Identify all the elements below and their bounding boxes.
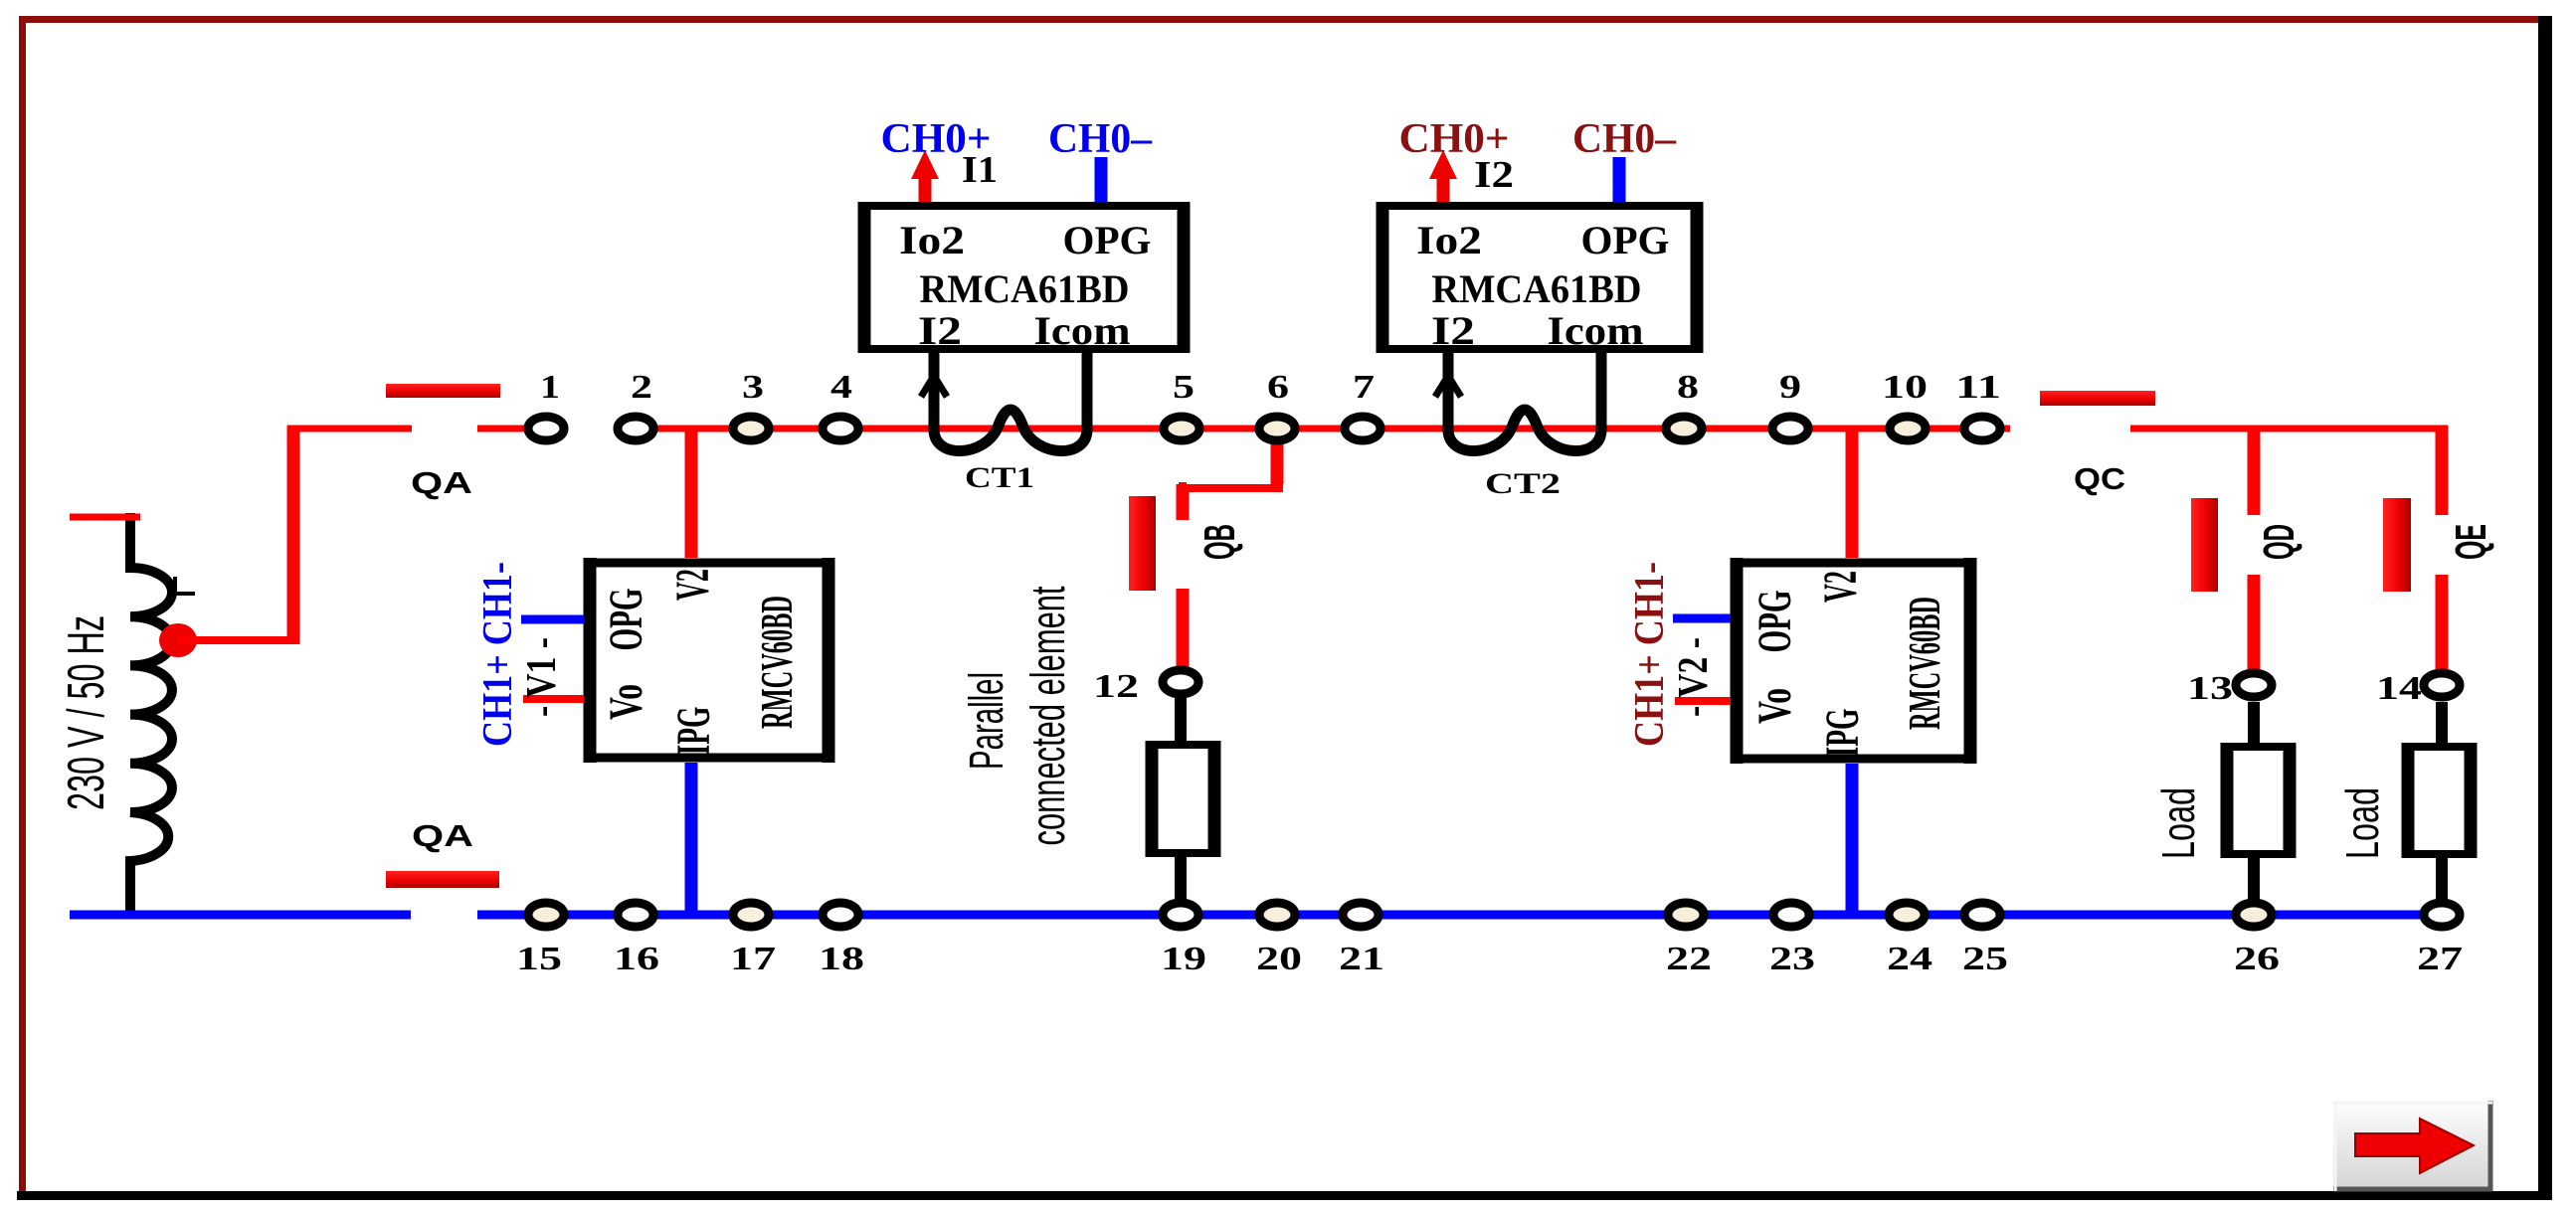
svg-text:23: 23 [1769, 941, 1815, 977]
svg-text:Vo: Vo [600, 684, 652, 720]
svg-text:7: 7 [1353, 369, 1375, 406]
svg-text:CH0+: CH0+ [1399, 116, 1510, 162]
load LD1 wire top [2248, 702, 2260, 743]
svg-text:CT1: CT1 [965, 461, 1034, 494]
svg-text:4: 4 [830, 369, 852, 406]
node 22 [1668, 903, 1704, 927]
svg-text:- V1 -: - V1 - [519, 637, 565, 717]
svg-text:OPG: OPG [1748, 591, 1801, 653]
node 20 [1259, 903, 1295, 927]
svg-text:21: 21 [1339, 941, 1384, 977]
wire to switch QD [2248, 426, 2261, 515]
CT2 arrow [1435, 376, 1461, 397]
node 24 [1889, 903, 1925, 927]
frame right border [2538, 16, 2552, 1200]
svg-text:Vo: Vo [1748, 688, 1801, 724]
U3 OPG wire [521, 615, 584, 624]
U2 blue pin wire [1613, 157, 1626, 202]
node 18 [823, 903, 858, 927]
svg-text:RMCA61BD: RMCA61BD [1432, 266, 1642, 311]
svg-text:RMCA61BD: RMCA61BD [920, 266, 1130, 311]
svg-text:Parallel: Parallel [961, 672, 1013, 770]
svg-text:OPG: OPG [1063, 218, 1152, 262]
node 17 [733, 903, 769, 927]
node 5 [1164, 417, 1199, 440]
svg-text:16: 16 [614, 941, 659, 977]
node 10 [1890, 417, 1926, 440]
svg-text:19: 19 [1161, 941, 1206, 977]
svg-text:10: 10 [1882, 369, 1928, 406]
node 16 [618, 903, 653, 927]
node 1 [528, 417, 564, 440]
svg-text:RMCV60BD: RMCV60BD [751, 596, 802, 729]
wire top bus nodes 2-11 [636, 426, 2010, 433]
svg-text:OPG: OPG [600, 589, 652, 651]
node 23 [1773, 903, 1809, 927]
svg-text:CH1+ CH1-: CH1+ CH1- [475, 562, 521, 747]
wire QC to right corner [2130, 426, 2448, 433]
load LD1 wire bottom [2248, 858, 2260, 900]
svg-text:15: 15 [516, 941, 562, 977]
AC source coil winding [130, 513, 172, 917]
wire QB to node 12 [1177, 589, 1190, 682]
U2 output arrow I2 [1437, 174, 1450, 202]
svg-text:Io2: Io2 [1416, 218, 1482, 262]
svg-text:connected element: connected element [1022, 587, 1075, 846]
svg-text:9: 9 [1779, 369, 1801, 406]
svg-text:CH1+ CH1-: CH1+ CH1- [1627, 562, 1673, 747]
node 13 [2236, 673, 2272, 697]
wire top bus to switch QA [287, 426, 412, 433]
svg-text:V2: V2 [1814, 571, 1867, 603]
switch QA (bottom) bar [386, 871, 499, 888]
svg-text:QB: QB [1196, 524, 1244, 560]
node 19 [1163, 903, 1198, 927]
svg-text:20: 20 [1256, 941, 1302, 977]
svg-text:6: 6 [1267, 369, 1289, 406]
U1 blue pin wire [1095, 157, 1108, 202]
U4 OPG wire [1673, 614, 1731, 623]
svg-text:25: 25 [1962, 941, 2008, 977]
svg-text:1: 1 [540, 369, 560, 406]
node 11 [1964, 417, 2000, 440]
U4 Vo wire [1675, 697, 1731, 705]
parallel element resistor wire bottom [1175, 857, 1187, 900]
current module U1 RMCA61BD box [858, 202, 1190, 353]
load LD2 wire bottom [2436, 858, 2448, 900]
switch QE bar [2383, 498, 2411, 592]
junction dot on coil tap [159, 623, 197, 657]
svg-text:18: 18 [819, 941, 864, 977]
svg-text:Load: Load [2336, 787, 2388, 859]
current module U2 RMCA61BD box [1377, 202, 1703, 353]
svg-text:11: 11 [1955, 369, 2001, 406]
current transformer CT1 [934, 349, 1087, 451]
frame left border [19, 16, 26, 1199]
svg-text:V2: V2 [666, 569, 719, 601]
svg-text:26: 26 [2234, 941, 2280, 977]
wire QA to node 1 [477, 426, 546, 433]
svg-text:CH0–: CH0– [1048, 116, 1153, 162]
svg-text:3: 3 [742, 369, 764, 406]
parallel element resistor body [1146, 741, 1220, 857]
svg-text:Io2: Io2 [899, 218, 965, 262]
wire QD to node 13 [2248, 575, 2261, 685]
svg-text:Icom: Icom [1548, 308, 1644, 353]
svg-text:12: 12 [1093, 668, 1139, 705]
voltage module U3 RMCV60BD box [584, 558, 834, 763]
svg-text:14: 14 [2376, 670, 2422, 707]
parallel element resistor wire top [1175, 696, 1187, 741]
switch QB bar [1129, 496, 1156, 591]
svg-text:22: 22 [1666, 941, 1712, 977]
CT1 arrow [921, 376, 947, 397]
svg-text:CH0+: CH0+ [881, 116, 992, 162]
svg-text:Load: Load [2152, 787, 2204, 859]
svg-text:230 V / 50 Hz: 230 V / 50 Hz [58, 615, 115, 810]
wire IPG U4 to bus [1846, 764, 1859, 915]
svg-text:QE: QE [2447, 524, 2495, 560]
bottom blue bus main [477, 911, 2442, 920]
svg-text:5: 5 [1173, 369, 1195, 406]
wire V2 drop to U4 [1846, 426, 1859, 558]
svg-text:17: 17 [730, 941, 776, 977]
switch QC bar [2040, 391, 2155, 406]
svg-text:2: 2 [631, 369, 652, 406]
node 25 [1964, 903, 2000, 927]
svg-text:IPG: IPG [1816, 709, 1869, 758]
node 12 [1163, 670, 1198, 694]
load LD2 wire top [2436, 702, 2448, 743]
node 3 [733, 417, 769, 440]
svg-text:QC: QC [2074, 461, 2125, 496]
svg-text:I2: I2 [1431, 308, 1475, 353]
button red arrow [2355, 1119, 2474, 1173]
current transformer CT2 [1448, 349, 1601, 451]
svg-text:CT2: CT2 [1485, 467, 1561, 500]
frame top border [19, 16, 2543, 23]
coil polarity tick [167, 577, 195, 594]
switch QD bar [2191, 498, 2218, 592]
wire node 6 to switch QB [1183, 426, 1283, 511]
switch QA (top) bar [386, 384, 500, 398]
voltage module U4 RMCV60BD box [1731, 558, 1976, 764]
svg-text:QA: QA [412, 818, 473, 853]
node 26 [2236, 903, 2272, 927]
U3 Vo wire [523, 695, 584, 703]
svg-text:24: 24 [1887, 941, 1932, 977]
node 14 [2424, 673, 2460, 697]
frame bottom border [17, 1191, 2552, 1200]
node 21 [1343, 903, 1379, 927]
node 8 [1666, 417, 1702, 440]
node 4 [823, 417, 858, 440]
svg-text:QA: QA [411, 465, 472, 500]
svg-text:OPG: OPG [1581, 218, 1670, 262]
svg-text:Icom: Icom [1034, 308, 1131, 353]
svg-text:IPG: IPG [667, 707, 720, 756]
wire tap to top bus [178, 636, 287, 644]
svg-text:- V2 -: - V2 - [1671, 637, 1717, 717]
svg-text:8: 8 [1677, 369, 1699, 406]
bottom blue bus left [70, 911, 411, 920]
load LD2 body [2402, 743, 2477, 858]
U1 output arrow I1 [919, 174, 932, 202]
AC source V1 230V/50Hz : top stub wire [70, 514, 140, 521]
svg-text:13: 13 [2187, 670, 2233, 707]
wire to switch QE [2436, 426, 2449, 515]
svg-text:QD: QD [2255, 524, 2303, 560]
svg-text:I2: I2 [918, 308, 962, 353]
svg-text:CH0–: CH0– [1572, 116, 1677, 162]
node 6 [1259, 417, 1295, 440]
node 7 [1345, 417, 1380, 440]
node 27 [2424, 903, 2460, 927]
next page button [2333, 1101, 2492, 1191]
node 9 [1772, 417, 1808, 440]
wire QE to node 14 [2436, 575, 2449, 685]
node 2 [618, 417, 653, 440]
node 15 [528, 903, 564, 927]
svg-text:27: 27 [2417, 941, 2463, 977]
svg-text:RMCV60BD: RMCV60BD [1899, 597, 1949, 730]
wire V2 drop to U3 [685, 426, 698, 558]
load LD1 body [2221, 743, 2296, 858]
wire IPG U3 to bus [685, 763, 698, 915]
